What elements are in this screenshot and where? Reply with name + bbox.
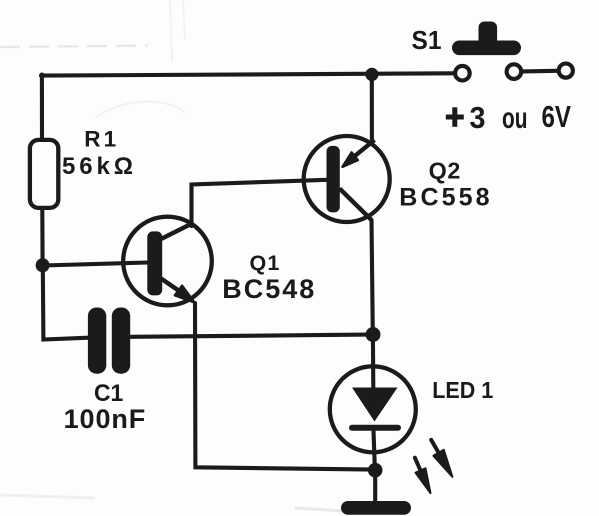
ground [341,501,411,515]
svg-text:Q2: Q2 [429,158,461,184]
LED1 light arrow left stem [415,458,421,471]
transistor Q1 collector line [160,224,192,240]
capacitor C1 plate left [88,308,106,374]
node A [36,258,50,272]
svg-text:3: 3 [470,101,486,135]
transistor Q2 emitter line [355,140,375,156]
LED1 triangle [352,388,398,422]
node B [365,68,378,81]
transistor Q1 base bar [147,231,162,295]
capacitor C1 plate right [112,308,130,374]
wire R1 to node A [40,208,44,266]
resistor R1 [30,140,58,208]
switch S1 button stem [479,22,498,48]
LED1 light arrow right stem [431,440,438,453]
wire ground stem [373,470,377,502]
transistor Q1 circle [123,217,212,306]
wire LED cathode to node D [374,431,375,470]
faint scan artifact: ghost lines top-middle [95,0,185,118]
svg-text:C1: C1 [94,380,123,407]
wire left vertical to R1 [40,75,44,141]
switch S1 terminal right [559,64,573,78]
node D [368,463,383,478]
LED1 light arrow right head [433,450,452,477]
svg-text:6V: 6V [542,99,572,134]
LED1 cathode bar [352,425,398,431]
svg-text:56kΩ: 56kΩ [62,153,133,180]
wire Q1 emitter down and bottom rail to node D [195,303,375,470]
LED1 light arrow left head [416,468,431,493]
svg-text:100nF: 100nF [64,404,146,434]
transistor Q2 base bar [327,146,340,213]
svg-text:LED 1: LED 1 [432,377,493,403]
svg-text:ou: ou [502,102,528,135]
wire node A to Q1 base [43,263,148,266]
switch S1 terminal middle [507,64,522,79]
transistor Q1 emitter arrowhead [175,286,195,303]
wire node C to LED anode [371,334,375,389]
transistor Q2 emitter arrowhead [343,152,358,166]
transistor Q1 emitter line [161,279,180,292]
svg-text:BC548: BC548 [222,274,314,304]
svg-text:Q1: Q1 [250,251,280,275]
LED1 circle [330,366,416,452]
switch S1 button bar [452,41,521,56]
svg-text:BC558: BC558 [399,184,489,212]
svg-text:R1: R1 [84,127,116,152]
wire switch middle to right terminal [523,69,558,74]
node C [366,327,381,342]
faint scan artifact: bottom-left streaks [0,495,95,498]
transistor Q2 collector line [340,189,372,220]
label + plus sign [446,107,464,127]
wire node A down and to C1 [43,265,89,340]
wire top rail [41,73,453,75]
faint scan artifact: horizontal streak top-left [0,46,148,48]
wire C1 to node C [130,335,368,337]
wire Q1 collector stub and cross wire to Q2 base [192,180,328,226]
wire node B down to Q2 emitter [370,74,374,143]
wire Q2 collector down to node C [372,220,373,334]
switch S1 terminal left [455,66,470,81]
svg-text:S1: S1 [412,25,442,55]
transistor Q2 circle [304,136,390,222]
